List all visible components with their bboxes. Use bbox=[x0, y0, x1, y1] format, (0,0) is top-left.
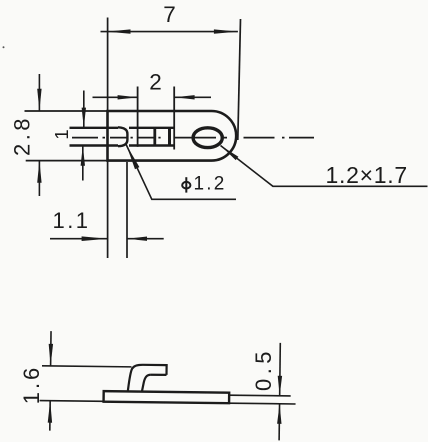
dim 0.5 top arrow bbox=[279, 343, 282, 396]
hook tab outer edge bbox=[128, 365, 167, 392]
scan speck bbox=[3, 46, 5, 48]
extension line bottom of dim 1.6 bbox=[40, 400, 104, 403]
slot top edge (with extension for dim 1) bbox=[70, 127, 119, 129]
crimp box top edge bbox=[129, 127, 174, 129]
extension line left (shared by dims 7 and 1.1) bbox=[107, 18, 109, 259]
leader line phi1.2 bbox=[126, 145, 236, 200]
hook tab inner top edge bbox=[151, 374, 167, 376]
side view thin plate bottom line bbox=[229, 402, 295, 405]
dim 2.8 top arrow bbox=[38, 74, 40, 111]
part outline (top view stadium body) bbox=[108, 111, 237, 161]
svg-text:7: 7 bbox=[163, 2, 176, 27]
side view thin plate top line bbox=[229, 394, 290, 397]
extension line top of dim 2.8 bbox=[25, 110, 108, 112]
extension line top of dim 1.6 bbox=[42, 366, 131, 367]
leader text phi1.2 bbox=[182, 177, 190, 192]
dim 2.8 bottom arrow bbox=[38, 161, 40, 196]
dim line 2 left arrow bbox=[93, 96, 138, 98]
side view plate (crimp section) bbox=[104, 391, 230, 403]
hook tab right end bbox=[165, 364, 167, 375]
dim 1.6 bottom arrow bbox=[49, 401, 51, 431]
leader line 1.2x1.7 bbox=[221, 146, 428, 187]
centerline (horizontal dash-dot axis of top view) bbox=[72, 137, 314, 139]
slot bottom edge (with extension for dim 1) bbox=[70, 144, 119, 146]
svg-text:1.2×1.7: 1.2×1.7 bbox=[326, 162, 408, 188]
extension line left of dim 2 bbox=[137, 87, 139, 147]
svg-text:0.5: 0.5 bbox=[251, 347, 276, 391]
crimp box bottom edge bbox=[129, 144, 174, 146]
dim 1 bottom arrow bbox=[82, 146, 84, 181]
dim line 2 right arrow bbox=[175, 96, 211, 98]
svg-text:1.2: 1.2 bbox=[194, 174, 227, 195]
svg-text:2.8: 2.8 bbox=[10, 115, 35, 156]
oval hole 1.2x1.7 bbox=[193, 128, 222, 148]
svg-text:1.1: 1.1 bbox=[52, 208, 90, 233]
hook tab inner riser edge bbox=[142, 375, 151, 392]
dim 1 top arrow bbox=[83, 91, 85, 128]
serration line 1 bbox=[153, 128, 156, 146]
dim line 1.1 right arrow bbox=[127, 238, 164, 240]
dim 1.6 top arrow bbox=[50, 331, 52, 366]
serration line 2 bbox=[168, 128, 171, 146]
extension line right of dim 2 bbox=[173, 87, 175, 150]
dim line 1.1 left arrow bbox=[50, 238, 108, 240]
svg-text:1: 1 bbox=[51, 129, 72, 139]
svg-text:2: 2 bbox=[149, 70, 162, 95]
dim line 7 bbox=[101, 31, 238, 33]
extension line right of dim 1.1 bbox=[126, 162, 128, 258]
extension line right of dim 7 bbox=[238, 19, 241, 140]
dim 0.5 bottom arrow bbox=[278, 404, 280, 441]
extension line bottom of dim 2.8 bbox=[26, 160, 108, 162]
svg-text:1.6: 1.6 bbox=[19, 365, 44, 405]
slot relief hole arc (phi 1.2 bulge) bbox=[118, 127, 127, 146]
